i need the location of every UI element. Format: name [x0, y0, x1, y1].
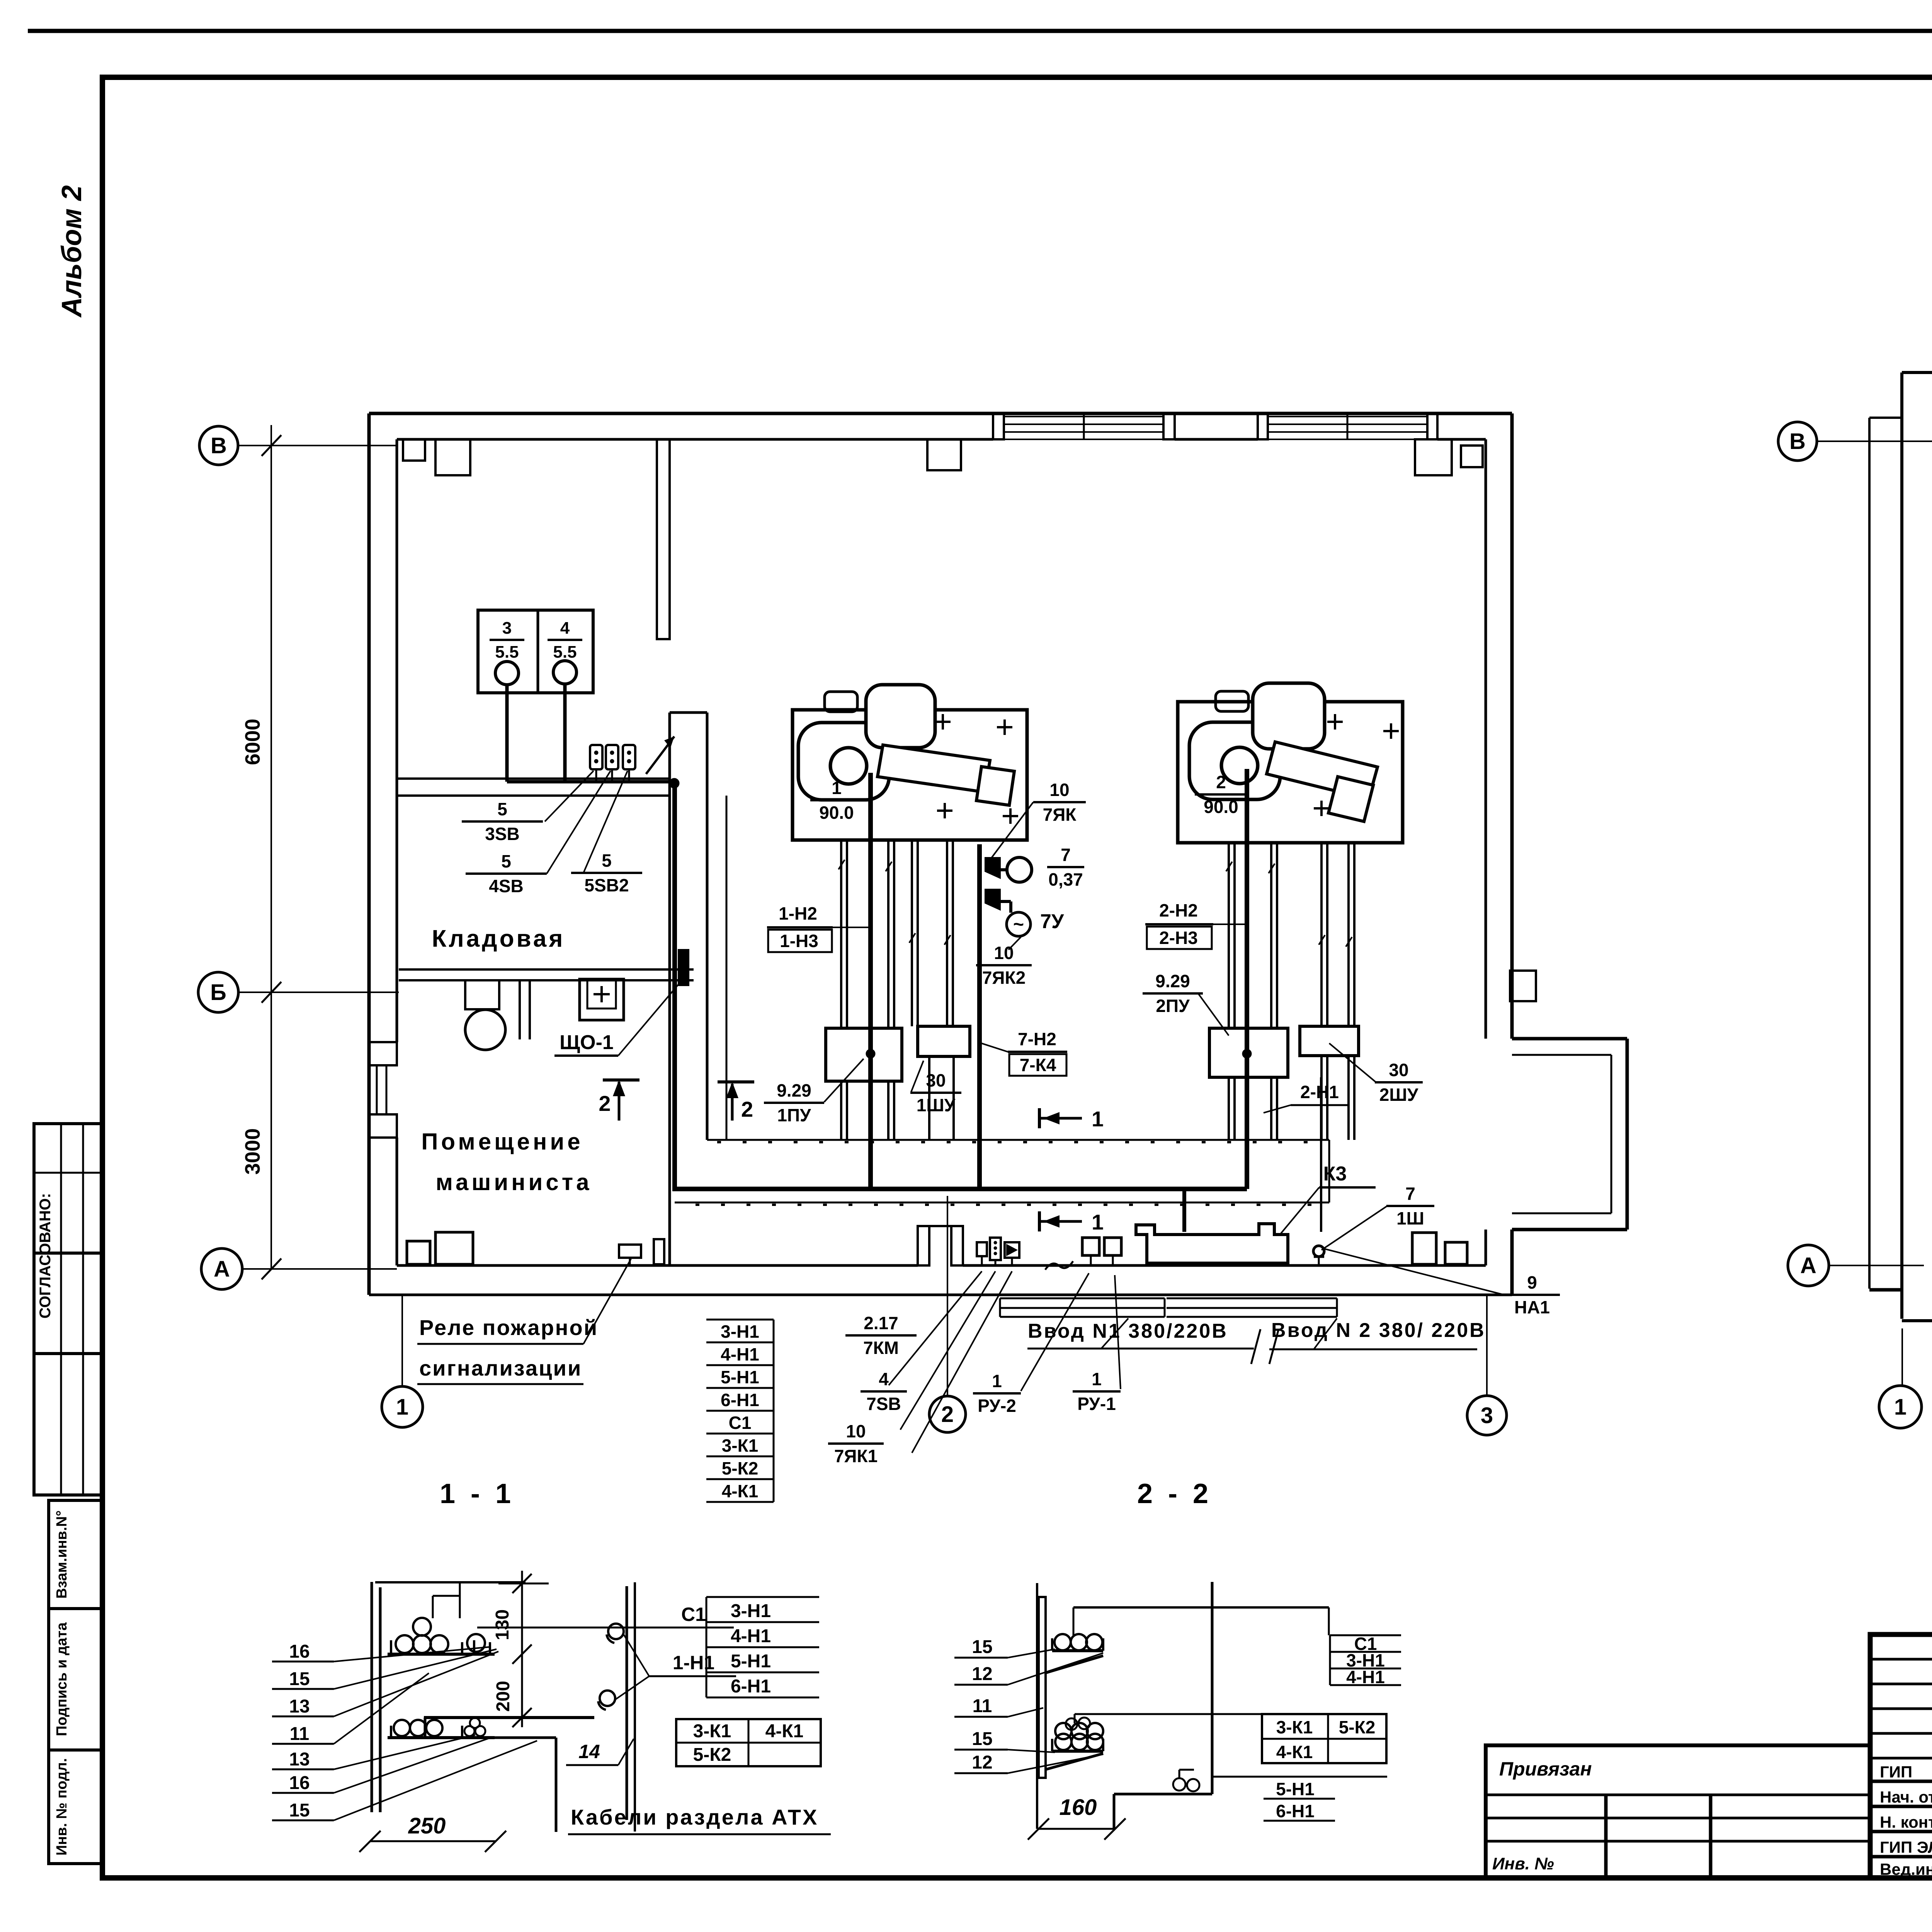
- box 1ШУ: [918, 1026, 970, 1056]
- Привязан box columns: [1604, 1795, 1608, 1878]
- svg-text:2 - 2: 2 - 2: [1137, 1478, 1212, 1509]
- small stub: [654, 1239, 664, 1264]
- sheet outer top border line: [28, 29, 1932, 33]
- svg-text:5-К2: 5-К2: [722, 1458, 759, 1478]
- vertical dimension line between axes: [270, 425, 272, 1269]
- svg-text:1: 1: [1092, 1210, 1104, 1234]
- section marker 2 up (right): [731, 1084, 734, 1121]
- svg-text:Подпись и дата: Подпись и дата: [54, 1622, 70, 1736]
- svg-text:4: 4: [879, 1369, 889, 1389]
- channel right vertical to annex: [1328, 1140, 1330, 1202]
- leader 5SB2: [583, 771, 628, 873]
- compressor machine 1 base: [793, 710, 1027, 840]
- tray A shelf arm: [1045, 1656, 1103, 1673]
- svg-text:Инв. №: Инв. №: [1492, 1854, 1554, 1873]
- leaders from wall devices to labels below: [889, 1271, 982, 1385]
- panel ЩО-1 black bar on wall: [679, 950, 689, 985]
- svg-text:ЩО-1: ЩО-1: [560, 1031, 614, 1054]
- section 1-1 right post: [626, 1586, 628, 1820]
- tray A cables: [1054, 1634, 1071, 1650]
- svg-text:ГИП ЭЛ: ГИП ЭЛ: [1880, 1838, 1932, 1856]
- grid axis 3 circle (plan): [1467, 1396, 1507, 1435]
- small cables oo: [1173, 1778, 1185, 1791]
- svg-text:7-Н2: 7-Н2: [1018, 1029, 1056, 1049]
- bottom wall band: [369, 1294, 1512, 1296]
- svg-text:1: 1: [396, 1395, 408, 1420]
- axis 2 line: [947, 1196, 948, 1396]
- title block outer: [1870, 1634, 1932, 1878]
- svg-text:15: 15: [972, 1637, 992, 1657]
- svg-text:2.17: 2.17: [864, 1313, 898, 1333]
- control box with units 3 and 4: [478, 610, 593, 693]
- conduit tick marks m1: [838, 860, 845, 869]
- svg-text:4-К1: 4-К1: [765, 1721, 804, 1742]
- svg-text:1: 1: [1092, 1369, 1102, 1389]
- svg-text:1-Н3: 1-Н3: [780, 931, 818, 951]
- svg-text:Привязан: Привязан: [1499, 1758, 1592, 1780]
- label 10/7ЯК1: [828, 1421, 884, 1466]
- hooks on right post: [608, 1624, 624, 1639]
- svg-text:3: 3: [502, 619, 512, 638]
- svg-text:5.5: 5.5: [553, 643, 577, 662]
- leader to fire relay: [583, 1259, 631, 1344]
- svg-text:6-Н1: 6-Н1: [1276, 1801, 1315, 1821]
- svg-text:2-Н2: 2-Н2: [1159, 900, 1198, 920]
- conduit continuations below boxes: [840, 1081, 842, 1140]
- stamp box Взам.инв.№: [49, 1500, 102, 1609]
- svg-text:5-Н1: 5-Н1: [731, 1651, 771, 1672]
- svg-text:90.0: 90.0: [819, 803, 854, 823]
- svg-text:7ЯК2: 7ЯК2: [982, 968, 1026, 988]
- leaders 1-Н1 to hooks: [624, 1634, 649, 1676]
- roof parapet line: [1868, 418, 1871, 1289]
- leaders from left labels: [334, 1647, 491, 1662]
- svg-text:2: 2: [1216, 772, 1226, 792]
- label 5/4SB: [466, 851, 547, 896]
- label 9.29/1ПУ: [764, 1080, 824, 1125]
- label 7/0,37: [1047, 845, 1084, 889]
- svg-text:7: 7: [1061, 845, 1071, 865]
- unit circles: [495, 662, 519, 685]
- svg-text:1: 1: [832, 778, 842, 798]
- signature rows: [1870, 1780, 1932, 1783]
- label 2.17/7КМ: [845, 1313, 917, 1358]
- tray 1 shelf: [388, 1653, 495, 1656]
- svg-text:9: 9: [1527, 1272, 1537, 1293]
- section 1-1 top line: [375, 1581, 526, 1583]
- svg-text:250: 250: [408, 1813, 446, 1838]
- svg-text:5.5: 5.5: [495, 643, 519, 662]
- svg-text:1-Н1: 1-Н1: [673, 1652, 714, 1673]
- tray B cables 888: [1055, 1723, 1071, 1739]
- svg-text:Кладовая: Кладовая: [432, 925, 565, 952]
- svg-text:10: 10: [846, 1421, 866, 1441]
- svg-text:1Ш: 1Ш: [1396, 1208, 1424, 1228]
- axis 3 line: [1486, 1295, 1488, 1396]
- svg-text:4-Н1: 4-Н1: [731, 1626, 771, 1646]
- label 9/НА1: [1504, 1272, 1560, 1317]
- svg-text:сигнализации: сигнализации: [419, 1356, 582, 1380]
- section 2-2 top line: [1073, 1606, 1329, 1609]
- svg-text:5: 5: [497, 799, 507, 819]
- svg-text:1ШУ: 1ШУ: [917, 1095, 956, 1115]
- svg-text:4: 4: [560, 619, 570, 638]
- tray B top line: [1075, 1713, 1386, 1715]
- switch 4SB: [606, 745, 618, 782]
- svg-text:7У: 7У: [1040, 910, 1064, 933]
- tray A bracket: [1051, 1638, 1053, 1651]
- svg-text:1-Н2: 1-Н2: [779, 903, 817, 923]
- svg-text:10: 10: [994, 943, 1014, 963]
- machine 2 thick cable down: [1245, 769, 1249, 1189]
- svg-text:В: В: [211, 433, 227, 458]
- svg-text:3-К1: 3-К1: [1276, 1717, 1313, 1737]
- interior wall horizontal (Б row): [399, 968, 694, 971]
- svg-text:5-Н1: 5-Н1: [721, 1367, 759, 1387]
- label 30/1ШУ: [910, 1070, 961, 1115]
- svg-text:3-К1: 3-К1: [693, 1721, 731, 1742]
- svg-text:1: 1: [992, 1371, 1002, 1391]
- label 30/2ШУ: [1375, 1060, 1423, 1105]
- grid axis 1 circle (roof): [1879, 1386, 1922, 1428]
- cable up-arrow near wall: [646, 736, 674, 774]
- box 2ПУ: [1209, 1028, 1288, 1077]
- svg-text:9.29: 9.29: [1155, 971, 1190, 991]
- switch 5SB2: [623, 745, 635, 782]
- tray 2 cables: [394, 1720, 410, 1736]
- svg-text:4-Н1: 4-Н1: [721, 1344, 759, 1364]
- break slashes between Ввод labels: [1251, 1329, 1260, 1364]
- svg-text:90.0: 90.0: [1204, 797, 1238, 817]
- svg-text:Альбом 2: Альбом 2: [56, 185, 87, 318]
- section 2-2 wall: [1036, 1583, 1038, 1829]
- axis А leader line: [242, 1268, 397, 1270]
- table 3-К1|5-К2/4-К1: [1262, 1714, 1386, 1763]
- svg-text:16: 16: [289, 1773, 310, 1793]
- machine 1 pedestal conduits: [840, 840, 842, 1028]
- svg-text:4-Н1: 4-Н1: [1346, 1667, 1385, 1687]
- svg-text:Н. контр.: Н. контр.: [1880, 1813, 1932, 1831]
- svg-text:12: 12: [972, 1664, 992, 1684]
- window 1 in top wall: [1004, 416, 1163, 417]
- leaders from Ввод labels to trays: [1101, 1318, 1128, 1349]
- section 2-2 long vertical: [1211, 1582, 1214, 1794]
- svg-text:30: 30: [1389, 1060, 1408, 1080]
- wires from control box down: [505, 685, 509, 782]
- grid axis В circle (left): [199, 426, 238, 465]
- switch 3SB: [590, 745, 602, 782]
- svg-text:200: 200: [493, 1681, 514, 1712]
- svg-text:6-Н1: 6-Н1: [731, 1676, 771, 1697]
- svg-text:Инв. № подл.: Инв. № подл.: [54, 1758, 70, 1855]
- machine 2 belt housing (slanted): [1267, 742, 1378, 799]
- svg-text:4-К1: 4-К1: [1276, 1742, 1313, 1762]
- label 7/1Ш: [1386, 1184, 1434, 1228]
- label 2/90.0: [1195, 772, 1247, 817]
- top wall pilaster squares: [403, 439, 425, 461]
- cable tray Ввод N1: [1000, 1298, 1165, 1299]
- fire relay box: [619, 1245, 641, 1258]
- svg-text:2: 2: [941, 1402, 954, 1427]
- section marker 1 left (lower): [1038, 1211, 1041, 1231]
- svg-text:3SB: 3SB: [485, 824, 519, 844]
- tray 1 cables: [396, 1635, 413, 1653]
- machine 1 thick cable down: [868, 773, 873, 1189]
- machine 2 pedestal conduits: [1228, 843, 1230, 1028]
- grid axis 2 circle (plan): [929, 1396, 966, 1432]
- svg-text:Ввод N 2 380/ 220В: Ввод N 2 380/ 220В: [1271, 1319, 1486, 1342]
- machine 1 mount crosses: [942, 714, 944, 730]
- label 5/5SB2: [571, 850, 642, 895]
- svg-text:А: А: [214, 1257, 230, 1282]
- vertical line through list area (axis leader): [740, 1503, 740, 1582]
- svg-text:7-К4: 7-К4: [1020, 1055, 1056, 1075]
- svg-text:НА1: НА1: [1514, 1297, 1550, 1317]
- label 4/7SB: [861, 1369, 907, 1414]
- stamp box Инв.№ подл.: [49, 1750, 102, 1864]
- svg-text:~: ~: [1013, 914, 1024, 935]
- dim line vertical 130/200: [521, 1571, 523, 1727]
- svg-text:0,37: 0,37: [1048, 869, 1083, 889]
- svg-text:13: 13: [289, 1696, 310, 1717]
- svg-text:Помещение: Помещение: [421, 1129, 583, 1155]
- grid axis А circle (roof): [1788, 1245, 1829, 1286]
- main plan outer walls: [369, 412, 1512, 415]
- axis 1 line: [401, 1295, 403, 1386]
- svg-text:2-Н1: 2-Н1: [1300, 1082, 1339, 1102]
- svg-text:5-К2: 5-К2: [693, 1745, 731, 1765]
- tray B shelf arm: [1045, 1753, 1103, 1770]
- svg-text:С1: С1: [681, 1604, 706, 1625]
- svg-text:130: 130: [492, 1609, 513, 1640]
- leader 3SB: [545, 771, 594, 821]
- 7У riser thick cable: [977, 844, 982, 1189]
- conduit tick marks m2: [1226, 862, 1232, 871]
- label 9.29/2ПУ: [1143, 971, 1203, 1016]
- leaders (section 2-2 labels): [1008, 1649, 1055, 1658]
- axis В leader line: [238, 445, 397, 446]
- two switch boxes mid: [1082, 1238, 1099, 1255]
- svg-text:15: 15: [289, 1800, 310, 1821]
- svg-text:ГИП: ГИП: [1880, 1763, 1912, 1781]
- interior wall horizontal y2030: [397, 777, 670, 780]
- 7ЯК2 connector (lower pair): [985, 889, 1001, 911]
- grid axis 1 circle (plan): [382, 1386, 423, 1427]
- svg-text:7: 7: [1405, 1184, 1415, 1204]
- svg-text:11: 11: [290, 1724, 310, 1744]
- interior wall vertical (storeroom/hall) lower band: [668, 713, 671, 1265]
- hall pit edge line: [726, 796, 728, 1140]
- svg-text:машиниста: машиниста: [435, 1169, 592, 1195]
- svg-text:9.29: 9.29: [777, 1080, 811, 1100]
- lamp circle 7/0.37: [1001, 868, 1007, 871]
- box 1ПУ: [826, 1028, 902, 1081]
- svg-text:1: 1: [1894, 1395, 1906, 1420]
- Привязан box: [1486, 1745, 1870, 1878]
- svg-text:16: 16: [289, 1641, 310, 1662]
- svg-text:Б: Б: [210, 980, 226, 1005]
- svg-text:6000: 6000: [241, 719, 264, 765]
- svg-text:7ЯК: 7ЯК: [1043, 804, 1077, 825]
- svg-text:7ЯК1: 7ЯК1: [834, 1446, 878, 1466]
- box 2ШУ: [1300, 1026, 1359, 1056]
- toilet fixtures: [465, 980, 530, 1050]
- label 1/90.0: [810, 778, 863, 823]
- channel dashed edge upper: [707, 1139, 1329, 1141]
- svg-text:2ПУ: 2ПУ: [1156, 996, 1190, 1016]
- section 1-1 top cable drop: [459, 1582, 461, 1618]
- device: signal column: [990, 1238, 1001, 1260]
- svg-text:15: 15: [289, 1669, 310, 1689]
- section 2-2 bottom lines: [1114, 1793, 1212, 1796]
- bottom wall door opening jambs: [918, 1226, 929, 1265]
- grid axis А circle (left): [201, 1248, 242, 1289]
- svg-text:2-Н3: 2-Н3: [1159, 928, 1198, 948]
- svg-text:15: 15: [972, 1729, 992, 1749]
- section 1-1 lower profile: [424, 1718, 427, 1738]
- device: small switch a: [977, 1242, 987, 1256]
- roof outline: [1902, 371, 1932, 374]
- channel dashed edge lower: [675, 1202, 1329, 1204]
- svg-text:Нач. отд.: Нач. отд.: [1880, 1788, 1932, 1806]
- left wall door jamb rects: [369, 1042, 397, 1065]
- svg-text:4-К1: 4-К1: [722, 1481, 759, 1501]
- device: filled valve box: [1005, 1242, 1019, 1258]
- section marker 2 up (left): [618, 1082, 621, 1121]
- svg-text:12: 12: [972, 1752, 992, 1773]
- svg-text:1ПУ: 1ПУ: [777, 1105, 811, 1125]
- svg-text:Ввод N1 380/220В: Ввод N1 380/220В: [1028, 1320, 1228, 1342]
- sink with plus: [580, 979, 624, 1020]
- svg-text:Реле пожарной: Реле пожарной: [419, 1315, 598, 1340]
- svg-text:1: 1: [1092, 1107, 1104, 1131]
- svg-text:30: 30: [926, 1070, 946, 1090]
- svg-text:СОГЛАСОВАНО:: СОГЛАСОВАНО:: [37, 1193, 54, 1319]
- generator circle 7У: [1001, 900, 1011, 903]
- tray 1 bracket right: [461, 1642, 463, 1654]
- svg-text:5: 5: [501, 851, 511, 871]
- axis Б leader line: [238, 992, 399, 993]
- svg-text:3000: 3000: [241, 1128, 264, 1175]
- horizontal wire to junction: [507, 780, 674, 784]
- cable channel thick outline: [672, 783, 677, 1189]
- section marker 1 left (upper): [1038, 1108, 1041, 1128]
- leader ЩО-1: [618, 983, 679, 1056]
- svg-text:160: 160: [1060, 1795, 1097, 1820]
- svg-text:11: 11: [973, 1696, 992, 1716]
- svg-text:6-Н1: 6-Н1: [721, 1390, 759, 1410]
- svg-text:В: В: [1789, 429, 1806, 454]
- grid axis В circle (roof): [1778, 422, 1817, 461]
- section 1-1 wall (left vertical): [371, 1582, 373, 1812]
- svg-text:14: 14: [578, 1741, 600, 1762]
- thick drop to switchboard: [1182, 1189, 1186, 1232]
- svg-text:10: 10: [1049, 780, 1069, 800]
- window 2 in top wall: [1268, 416, 1427, 417]
- svg-text:5-Н1: 5-Н1: [1276, 1779, 1315, 1799]
- svg-text:2: 2: [599, 1091, 611, 1116]
- machine 2 mount crosses: [1334, 714, 1336, 730]
- lamp device НА1: [1313, 1246, 1324, 1257]
- svg-text:Взам.инв.N°: Взам.инв.N°: [54, 1510, 70, 1599]
- А-wall equipment left: box1: [407, 1241, 430, 1264]
- right side annex room: [1512, 1039, 1627, 1230]
- svg-text:13: 13: [289, 1749, 310, 1770]
- svg-text:7КМ: 7КМ: [863, 1338, 899, 1358]
- svg-text:5SB2: 5SB2: [584, 875, 629, 895]
- svg-text:3-Н1: 3-Н1: [731, 1601, 771, 1621]
- machine 1 belt housing (slanted): [878, 745, 990, 792]
- label 1/РУ-1: [1073, 1369, 1121, 1414]
- svg-text:С1: С1: [729, 1413, 752, 1433]
- svg-text:5-К2: 5-К2: [1339, 1717, 1376, 1737]
- switchboard 1Ш cabinet: [1136, 1224, 1288, 1263]
- 7ЯК connector (upper pair of triangles): [985, 857, 1001, 879]
- А-wall equipment left: box2: [435, 1232, 473, 1264]
- svg-text:К3: К3: [1323, 1163, 1347, 1185]
- label 10/7ЯК2: [976, 943, 1032, 988]
- equipment right: boxes near annex: [1412, 1233, 1436, 1264]
- break squiggle on wall line: [1045, 1261, 1073, 1270]
- junction dot: [669, 778, 679, 788]
- Привязан box rows: [1486, 1794, 1870, 1796]
- svg-text:5: 5: [602, 850, 612, 871]
- svg-text:РУ-2: РУ-2: [978, 1396, 1016, 1416]
- svg-text:7SB: 7SB: [866, 1394, 901, 1414]
- left wall band: [367, 413, 371, 1295]
- svg-text:Вед.инж.: Вед.инж.: [1880, 1860, 1932, 1878]
- svg-text:РУ-1: РУ-1: [1077, 1394, 1116, 1414]
- label 1/РУ-2: [973, 1371, 1021, 1416]
- svg-text:2: 2: [741, 1097, 753, 1121]
- svg-text:3-Н1: 3-Н1: [721, 1321, 759, 1342]
- second shelf: [424, 1716, 594, 1719]
- label 10/7ЯК: [1033, 780, 1086, 825]
- svg-text:4SB: 4SB: [489, 876, 523, 896]
- right wall pilaster: [1510, 971, 1536, 1001]
- svg-text:3-К1: 3-К1: [722, 1435, 759, 1456]
- right wall band: [1510, 413, 1514, 1039]
- svg-text:Кабели раздела АТХ: Кабели раздела АТХ: [571, 1805, 818, 1829]
- left margin stamp table (Согласовано): [34, 1124, 102, 1495]
- svg-text:3: 3: [1481, 1403, 1493, 1428]
- svg-text:2ШУ: 2ШУ: [1379, 1085, 1419, 1105]
- left table narrow rows: [1870, 1658, 1932, 1661]
- table 3-К1|4-К1 / 5-К2: [676, 1719, 821, 1766]
- interior wall vertical (storeroom/hall) upper: [657, 439, 670, 639]
- compressor machine 2 base: [1178, 702, 1403, 843]
- svg-text:1 - 1: 1 - 1: [440, 1478, 515, 1509]
- leader 4SB: [547, 771, 611, 874]
- grid axis Б circle (left): [198, 972, 238, 1012]
- stamp box Подпись и дата: [49, 1609, 102, 1750]
- svg-text:А: А: [1800, 1253, 1816, 1278]
- cable tray Ввод N2: [1167, 1298, 1337, 1299]
- label 5/3SB: [462, 799, 543, 844]
